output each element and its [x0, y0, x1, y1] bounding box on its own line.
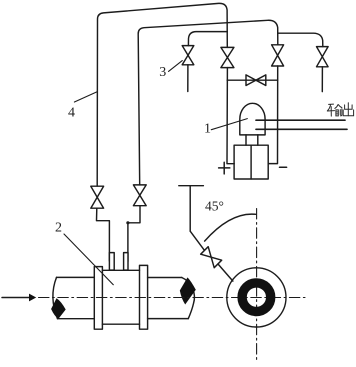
wire: VR down to low tap nipple: [128, 206, 140, 262]
wire: V3 down to transmitter minus side: [268, 66, 277, 164]
section centerline (dash-dot vertical): [256, 209, 258, 363]
transmitter body: [234, 145, 268, 179]
svg-text:45°: 45°: [205, 198, 224, 213]
valve V1 (vent, label 3 points here): [182, 46, 194, 65]
weld mark left (black): [51, 298, 66, 319]
orifice body 2 top and bottom edges: [102, 270, 139, 324]
glyph: shu (left radical che): [327, 104, 334, 116]
plus terminal: [219, 162, 230, 174]
valve: 45-degree drain valve: [201, 247, 222, 268]
wire: branch to vent valve V4: [278, 33, 323, 46]
orifice flange right: [140, 265, 148, 329]
wire: vent stub below V4: [321, 67, 323, 92]
valve: equalizer (horizontal bowtie): [246, 75, 266, 86]
weld mark right (black): [180, 277, 196, 304]
wire: 45-degree drain line lower: [218, 264, 233, 281]
svg-text:3: 3: [159, 65, 166, 80]
tap nipple high: [109, 253, 114, 271]
wire: branch to vent valve V1: [188, 32, 227, 46]
wire: 45-degree drain line upper: [190, 231, 204, 250]
valve V2 (high-pressure isolation): [221, 47, 234, 67]
45 degree dimension arc: [205, 214, 256, 241]
orifice flange left: [94, 267, 102, 330]
glyph: shu (right part yu): [335, 105, 342, 116]
pipe centerline (dash-dot horizontal): [39, 297, 306, 299]
pipe left break curve: [53, 277, 58, 318]
leader line for label 1: [211, 119, 247, 130]
flow pipe bottom edges: [58, 318, 189, 320]
wire: vent stub below V1: [187, 65, 189, 92]
valve V4 (vent right): [317, 47, 329, 67]
wire: output signal lines: [256, 120, 347, 129]
svg-text:2: 2: [55, 221, 62, 236]
svg-text:1: 1: [204, 122, 211, 137]
minus terminal: [280, 166, 287, 168]
pipe right break curve: [182, 278, 195, 319]
transmitter U1 dome (label 1): [240, 103, 265, 135]
valve VL (left tap isolation): [91, 186, 104, 208]
glyph: chu (exit): [343, 103, 353, 116]
label shuchu (output) hand-drawn glyphs: [327, 103, 353, 116]
flow pipe top edges: [57, 276, 182, 278]
node: tap line junction dot: [126, 221, 129, 224]
valve V3 (low-pressure isolation): [272, 45, 284, 66]
wire: outer impulse pipe 4 (left leg, top run, down to valve V2): [97, 3, 227, 186]
section view outer circle: [227, 268, 286, 327]
leader line for label 3: [169, 61, 183, 72]
wire: vent tee with end bar: [179, 186, 204, 232]
svg-text:4: 4: [68, 106, 75, 121]
wire: dome necks: [246, 135, 258, 145]
wire: VL down to high tap nipple: [97, 208, 110, 261]
wire: V2 down to transmitter plus side: [227, 68, 234, 164]
wire: inner impulse pipe (left leg, top run, down to valve V3): [138, 20, 278, 185]
leader line for label 2: [64, 234, 113, 285]
leader line for label 4: [74, 92, 97, 102]
tap nipple low: [124, 253, 128, 271]
wire: equalizer line: [227, 79, 277, 81]
wire: body mid line: [250, 145, 252, 179]
section view black ring: [242, 283, 271, 312]
valve VR (right tap isolation): [133, 185, 146, 206]
flow direction arrow: [2, 297, 30, 299]
